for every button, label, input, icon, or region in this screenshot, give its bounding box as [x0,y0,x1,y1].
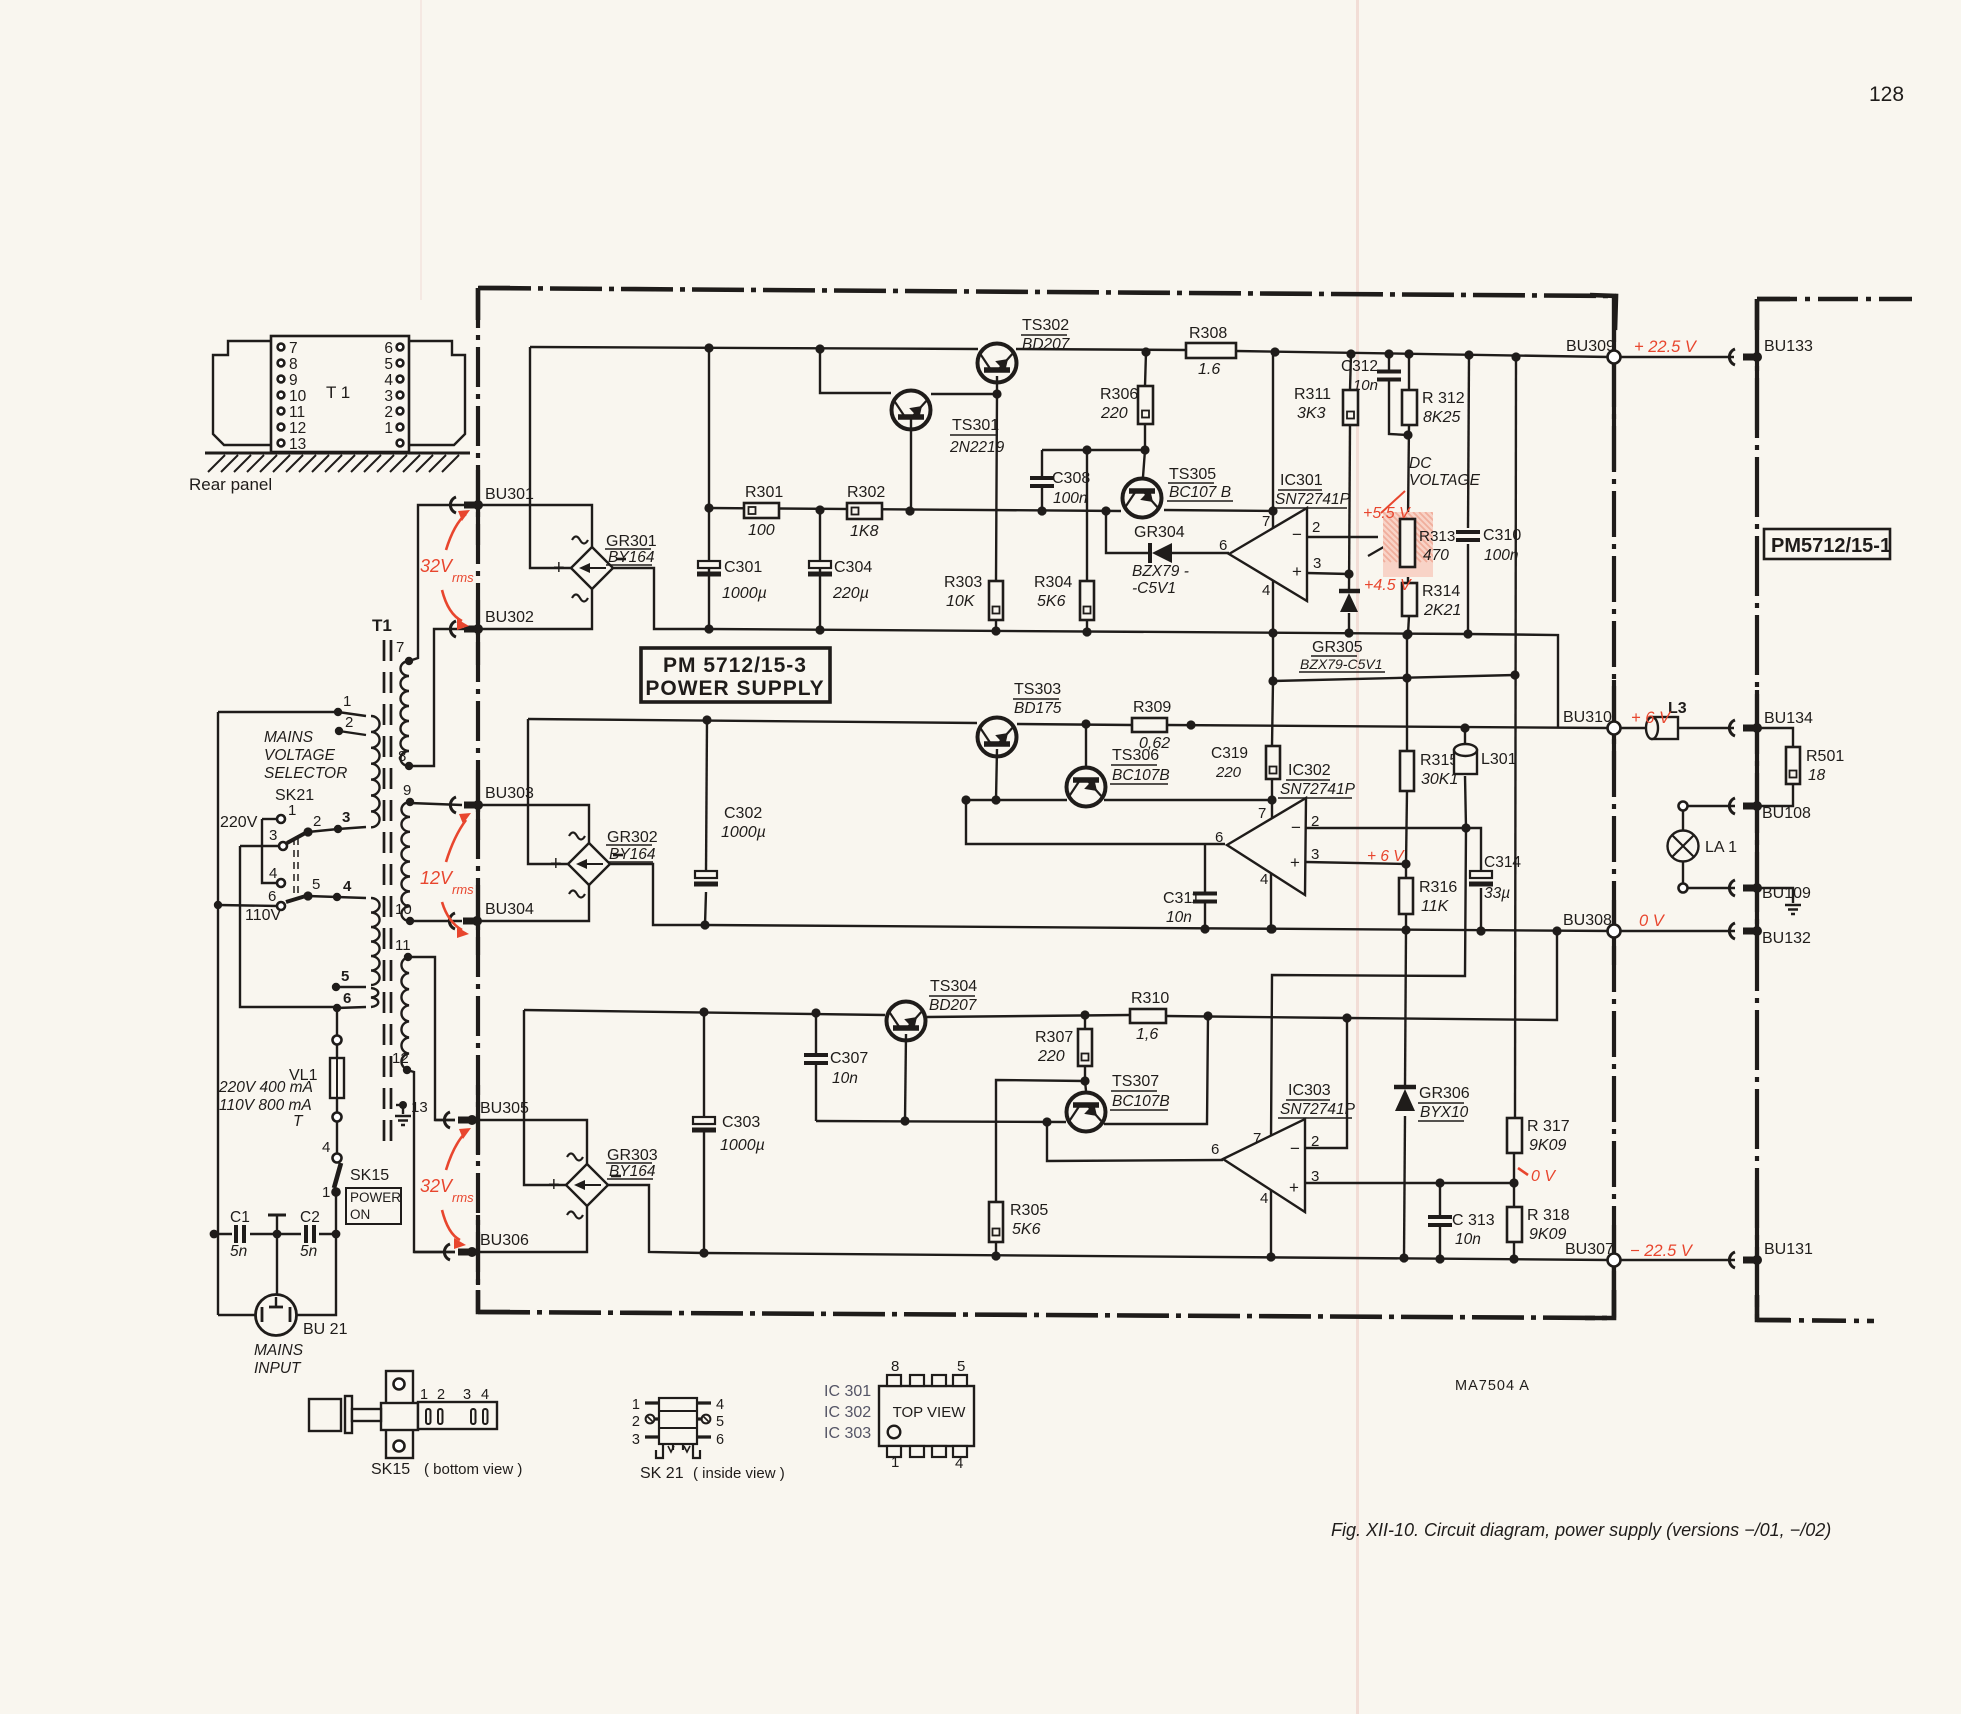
resistor R309 [1132,718,1167,732]
svg-text:10: 10 [395,901,412,918]
svg-text:1: 1 [632,1397,640,1413]
svg-text:110V: 110V [245,907,282,924]
resistor R318 [1507,1207,1522,1242]
op-amp IC301 [1229,508,1307,601]
svg-text:BC107B: BC107B [1112,767,1170,784]
svg-text:TOP VIEW: TOP VIEW [893,1404,967,1421]
svg-text:R301: R301 [745,484,783,501]
wire R307 riser [1084,1015,1086,1029]
transformer T1 secondary winding 7-8 [401,661,409,766]
wire IC302 pin 4 riser [1270,872,1272,929]
svg-text:C301: C301 [724,559,762,576]
potentiometer R313 highlight [1383,512,1433,577]
op-amp IC302 [1227,798,1306,895]
wire IC301 pin 3 to R311 GR305 [1307,573,1349,574]
diode GR306 [1394,1085,1416,1090]
svg-text:2: 2 [345,714,353,731]
bridge rectifier GR302 [568,843,610,885]
transistor TS305 [1123,479,1162,518]
svg-text:BU131: BU131 [1764,1241,1813,1258]
wire TS301 base down [910,419,912,510]
svg-text:6: 6 [384,340,393,357]
svg-text:SN72741P: SN72741P [1280,781,1356,798]
resistor R301 [744,503,779,518]
svg-text:4: 4 [481,1387,489,1403]
wire +22.5V sense riser to R317 [1515,357,1516,1118]
wire chassis stub at C1 C2 [276,1216,278,1234]
resistor R302 [847,503,882,519]
svg-text:T1: T1 [372,616,392,635]
svg-text:6: 6 [343,990,351,1007]
svg-text:C303: C303 [722,1114,760,1131]
svg-text:PM 5712/15-3: PM 5712/15-3 [663,654,807,677]
inductor L301 [1454,744,1477,774]
resistor R314 [1402,583,1417,616]
svg-text:VOLTAGE: VOLTAGE [1409,472,1481,489]
wire IC303 pin4 riser [1270,1190,1272,1257]
svg-text:+ 6 V: + 6 V [1631,709,1672,727]
svg-text:R307: R307 [1035,1029,1073,1046]
capacitor C313 [1428,1217,1452,1225]
svg-text:− 22.5 V: − 22.5 V [1630,1242,1694,1260]
svg-text:C314: C314 [1484,854,1521,871]
svg-text:4: 4 [1262,582,1270,599]
svg-text:1000µ: 1000µ [722,585,767,602]
wire SK21 wiper 2 output [308,896,366,898]
svg-text:( bottom view ): ( bottom view ) [424,1461,522,1478]
svg-text:TS305: TS305 [1169,466,1216,483]
svg-text:TS302: TS302 [1022,317,1069,334]
connector BU108 [1729,798,1735,814]
svg-text:BU307: BU307 [1565,1241,1614,1258]
wire C303 riser [703,1012,705,1118]
junction dots 0V rail [1552,926,1561,935]
svg-text:3: 3 [463,1387,471,1403]
PM5712/15-1 frame top border [1757,297,1912,302]
wire R301 R302 reference line [709,508,1121,511]
connector BU305 [444,1112,450,1128]
connector BU306 [444,1244,450,1260]
wire IC303 pin3 line [1305,1182,1512,1184]
svg-text:T: T [293,1113,304,1130]
svg-text:6: 6 [1211,1141,1219,1158]
svg-text:BU134: BU134 [1764,710,1813,727]
svg-text:R306: R306 [1100,386,1138,403]
svg-text:SK15: SK15 [350,1167,389,1184]
solid segments on right boundary at nodes [1612,296,1616,470]
svg-text:5: 5 [716,1414,724,1430]
wire -22.5V bottom rail [704,1253,1609,1260]
svg-text:GR303: GR303 [607,1147,658,1164]
svg-text:R314: R314 [1422,583,1460,600]
main board frame top border [479,288,1616,296]
wire GR301 minus to bottom rail [613,568,709,629]
wire BU306 to GR303 AC bottom [472,1206,587,1252]
wire R311 riser [1350,354,1351,390]
switch SK21 terminal 3 [279,842,287,850]
svg-text:BU108: BU108 [1762,805,1811,822]
rear panel left bracket [213,341,271,445]
svg-text:3: 3 [1311,1168,1319,1185]
svg-text:POWER SUPPLY: POWER SUPPLY [645,677,824,700]
svg-text:11: 11 [289,404,305,421]
svg-text:C312: C312 [1341,358,1378,375]
wire TS302 base riser to R303 [996,376,997,581]
wire fuse to SK15 [336,1044,338,1058]
wire BU304 to T1 pin 10 [410,920,462,922]
svg-text:10n: 10n [1353,377,1378,394]
resistor R501 [1757,728,1793,747]
svg-text:GR301: GR301 [606,533,657,550]
svg-text:R501: R501 [1806,748,1844,765]
svg-text:220µ: 220µ [832,585,869,602]
red label 0V at R317 [1518,1168,1528,1175]
svg-text:2: 2 [632,1414,640,1430]
switch SK21 terminal 4 [277,879,285,887]
svg-text:C310: C310 [1483,527,1521,544]
resistor R312 [1402,390,1417,425]
capacitor C303 [693,1117,715,1124]
svg-text:IC302: IC302 [1288,762,1331,779]
svg-text:5n: 5n [230,1243,247,1260]
PM5712/15-1 label box [1764,529,1890,559]
transistor TS307 [1067,1093,1106,1132]
svg-text:7: 7 [1262,513,1270,530]
svg-text:MAINS: MAINS [264,729,314,746]
wire BU305 to GR303 AC top [472,1120,587,1164]
svg-text:BU308: BU308 [1563,912,1612,929]
svg-text:Rear panel: Rear panel [189,475,272,494]
svg-text:3: 3 [632,1432,640,1448]
wire C313 riser [1439,1183,1441,1216]
wire pin2 node to IC303 pin7 bus [1271,828,1466,1143]
capacitor C314 [1470,871,1492,878]
switch SK21 wiper 2 [287,831,309,843]
svg-text:rms: rms [452,570,474,585]
inductor L3 [1620,727,1652,729]
svg-text:+ 6 V: + 6 V [1367,848,1405,865]
svg-text:5: 5 [957,1358,965,1375]
resistor R304 [1080,581,1094,620]
svg-text:BD175: BD175 [1014,700,1062,717]
node 675 bus dots [1268,628,1277,637]
svg-text:4: 4 [322,1139,330,1156]
wire R305 branch [996,1080,1085,1202]
svg-text:BZX79-C5V1: BZX79-C5V1 [1300,656,1382,672]
svg-text:−: − [1291,818,1301,837]
svg-text:1: 1 [384,420,393,437]
svg-text:BC107 B: BC107 B [1169,484,1231,501]
svg-text:R305: R305 [1010,1202,1048,1219]
wire R316 riser [1405,864,1407,878]
svg-text:C1: C1 [230,1209,250,1226]
solid segments on PM1 bus at connectors [1755,320,1759,430]
capacitor C307 [804,1055,828,1063]
svg-text:0 V: 0 V [1639,912,1666,930]
svg-text:9: 9 [403,782,411,799]
svg-text:R313: R313 [1419,528,1455,545]
svg-text:IC 301: IC 301 [824,1383,871,1400]
svg-text:8: 8 [398,748,406,765]
svg-text:ON: ON [350,1207,370,1222]
svg-text:6: 6 [1215,829,1223,846]
svg-text:110V 800 mA: 110V 800 mA [219,1097,312,1114]
svg-text:5: 5 [341,968,349,985]
svg-text:0 V: 0 V [1531,1168,1556,1185]
svg-text:0,62: 0,62 [1139,735,1170,752]
wire T1 pin12 to BU306 [407,1070,455,1252]
solid segments on left boundary at connectors [476,470,480,545]
wire GR302 plus riser [528,719,568,864]
fuse VL1 [333,1036,342,1045]
wire GR306 riser [1405,930,1406,1087]
wire SK21 3 to pin6 node [240,845,279,847]
wire TS303 base down [996,749,997,800]
wire BU307 to BU131 [1619,1259,1735,1261]
wire C301 riser [708,348,710,629]
svg-text:R315: R315 [1420,752,1458,769]
svg-text:TS307: TS307 [1112,1073,1159,1090]
svg-text:INPUT: INPUT [254,1360,302,1377]
wire R304 riser [1086,450,1088,581]
wire SK21 1-4 link [262,818,277,820]
svg-text:18: 18 [1808,767,1826,784]
svg-text:1: 1 [420,1387,428,1403]
capacitor C311 [1193,894,1217,902]
svg-text:GR305: GR305 [1312,639,1363,656]
svg-text:T 1: T 1 [326,383,350,402]
svg-text:100: 100 [748,522,775,539]
capacitor C302 [695,871,717,878]
svg-text:1: 1 [288,802,296,819]
connector BU134 [1729,720,1735,736]
svg-text:+5.5 V: +5.5 V [1363,505,1411,522]
switch SK21 terminal 6 [277,902,285,910]
svg-text:10n: 10n [832,1070,858,1087]
svg-text:GR306: GR306 [1419,1085,1470,1102]
wire +22.5V top rail [530,347,978,349]
svg-text:R302: R302 [847,484,885,501]
svg-text:7: 7 [1258,805,1266,822]
svg-text:1000µ: 1000µ [720,1137,765,1154]
wire C1 C2 line [214,1233,232,1235]
wire C304 riser [819,510,821,630]
wire C319 riser pin7 [1272,681,1273,746]
svg-text:SN72741P: SN72741P [1280,1101,1356,1118]
svg-text:BU 21: BU 21 [303,1321,348,1338]
connector BU133 [1729,349,1735,365]
svg-text:L301: L301 [1481,751,1517,768]
diode GR304 [1148,543,1152,563]
svg-text:POWER: POWER [350,1190,401,1205]
connector BU302 [450,621,456,637]
wire GR302 minus to 0V rail [610,864,705,925]
svg-text:12: 12 [289,420,306,437]
op-amp IC303 [1223,1119,1305,1212]
resistor R306 [1138,386,1153,424]
svg-text:2: 2 [384,404,393,421]
svg-text:5: 5 [384,356,393,373]
wire BU21 right riser [296,1234,336,1315]
svg-text:SK15: SK15 [371,1461,410,1478]
svg-text:R308: R308 [1189,325,1227,342]
svg-text:+4.5 V: +4.5 V [1364,577,1412,594]
wire GR303 minus to -22.5V rail [608,1185,704,1253]
transformer T1 core [383,640,386,1150]
wire C308 branch [1042,449,1145,451]
switch SK21 coupling link [293,838,295,893]
svg-text:3: 3 [384,388,393,405]
wire BU306 to T1 pin 12 [414,1251,455,1253]
wire BU301 to GR301 AC top [478,505,592,548]
svg-text:C308: C308 [1052,470,1090,487]
capacitor C312 [1377,372,1401,380]
wire 0V rail to BU132 [1619,930,1735,932]
transformer T1 primary winding 1-3 [371,716,380,827]
svg-text:C304: C304 [834,559,872,576]
wire +6V top rail [528,719,977,723]
svg-text:+: + [1292,562,1302,581]
svg-text:+: + [550,853,562,875]
wire tap 2 to primary [339,731,366,735]
wire section1 bottom rail [709,629,1558,727]
svg-text:SELECTOR: SELECTOR [264,765,347,782]
connector BU304 [449,913,455,929]
wire C310 riser [1468,355,1469,528]
svg-text:4: 4 [716,1397,724,1413]
wire C307 riser [815,1013,817,1055]
capacitor C1 [236,1225,244,1243]
node BU308 [1608,925,1621,938]
wire C302 riser [706,720,707,872]
svg-text:3: 3 [1313,555,1321,572]
capacitor C2 [306,1225,314,1243]
svg-text:5n: 5n [300,1243,317,1260]
wire R313 R314 chain to bottom rail [1407,567,1409,583]
svg-text:13: 13 [411,1099,428,1116]
connector BU132 [1729,923,1735,939]
svg-text:BY164: BY164 [609,846,656,863]
wire C314 branch [1466,828,1481,872]
svg-text:1: 1 [322,1184,330,1201]
svg-text:BU302: BU302 [485,609,534,626]
zener diode GR305 [1339,589,1360,594]
svg-text:rms: rms [452,882,474,897]
svg-text:8: 8 [891,1358,899,1375]
wire BU21 top riser [276,1234,278,1295]
svg-text:BU304: BU304 [485,901,534,918]
svg-text:10: 10 [289,388,307,405]
svg-text:Fig. XII-10. Circuit diagram,: Fig. XII-10. Circuit diagram, power supp… [1331,1520,1831,1540]
svg-text:SK 21: SK 21 [640,1465,684,1482]
svg-text:30K1: 30K1 [1421,771,1458,788]
svg-text:1K8: 1K8 [850,523,879,540]
svg-text:+: + [1290,853,1300,872]
wire SK15 to C2 node [335,1196,337,1234]
svg-text:IC 302: IC 302 [824,1404,871,1421]
wire BU307 down to frame [1612,1266,1614,1318]
rear panel transformer block T1 [271,336,409,452]
svg-text:BY164: BY164 [608,549,655,566]
wire BU301 to T1 pin 7 [409,505,478,661]
wire TS305 emitter to pin7 riser [1164,510,1273,511]
svg-text:+: + [553,557,565,579]
capacitor C319 [1266,746,1280,779]
svg-text:2: 2 [1311,813,1319,830]
svg-text:128: 128 [1869,83,1904,106]
wire R315 riser [1406,635,1408,751]
svg-text:BU310: BU310 [1563,709,1612,726]
transistor TS306 [1067,768,1106,807]
resistor R317 [1507,1118,1522,1153]
wire C307 TS304 base line [816,1121,1066,1122]
svg-text:12V: 12V [420,868,454,888]
node BU309 [1608,351,1621,364]
wire BU305 to T1 pin 11 [435,1119,455,1121]
svg-text:1: 1 [343,693,351,710]
svg-text:C319: C319 [1211,745,1248,762]
connector BU109 [1729,880,1735,896]
resistor R305 [989,1202,1003,1242]
wire GR303 plus riser [524,1010,566,1185]
wire R313 wiper arrow [1368,541,1394,556]
svg-text:11: 11 [395,937,411,954]
switch SK21 terminal 1 [277,815,285,823]
rear panel ground hatch [205,452,470,455]
ground below BU109 [1757,888,1793,903]
transistor TS301 [892,391,931,430]
svg-text:GR304: GR304 [1134,524,1185,541]
svg-text:220V 400 mA: 220V 400 mA [218,1079,313,1096]
svg-text:TS304: TS304 [930,978,977,995]
resistor R315 [1400,751,1414,791]
svg-text:4: 4 [1260,871,1268,888]
svg-text:( inside view ): ( inside view ) [693,1465,785,1482]
svg-text:220: 220 [1037,1048,1065,1065]
svg-text:9K09: 9K09 [1529,1137,1566,1154]
wire L3 to BU134 [1678,727,1734,729]
wire BU309 to BU133 [1620,356,1734,358]
connector BU303 [450,797,456,813]
svg-text:−: − [1290,1139,1300,1158]
svg-text:C2: C2 [300,1209,320,1226]
bridge rectifier GR301 [571,547,613,589]
wire TS301 emitter to TS302 base [931,393,997,395]
svg-text:IC301: IC301 [1280,472,1323,489]
wire BU302 to T1 pin 8 [409,629,478,766]
svg-text:BZX79 -: BZX79 - [1132,563,1189,580]
mains input connector BU21 [256,1295,297,1336]
svg-text:2: 2 [1311,1133,1319,1150]
svg-text:4: 4 [955,1455,963,1472]
svg-text:6: 6 [268,888,276,905]
svg-text:BU133: BU133 [1764,338,1813,355]
svg-text:33µ: 33µ [1484,885,1510,902]
wire T1 pin3 to SK21 [308,827,366,832]
wire pin4 bus 675 line [1273,675,1515,681]
transformer T1 primary winding 5-6 [371,988,378,1007]
transistor TS302 [978,344,1017,383]
svg-text:VOLTAGE: VOLTAGE [264,747,336,764]
svg-text:−: − [1292,525,1302,544]
resistor R303 [989,581,1003,620]
svg-text:8: 8 [289,356,298,373]
transformer T1 secondary winding 11-12 [401,957,409,1070]
svg-text:5: 5 [312,876,320,893]
POWER ON box [346,1188,401,1224]
wire section3 top rail [524,1010,885,1015]
SK15 bottom view drawing [386,1371,413,1458]
